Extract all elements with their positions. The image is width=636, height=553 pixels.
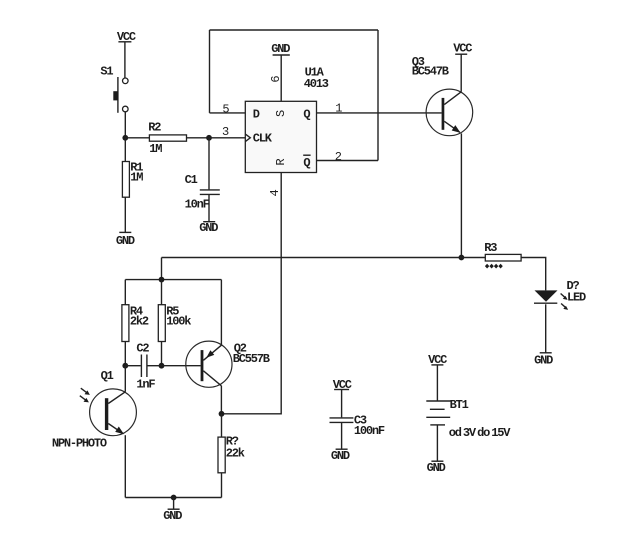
wire node F to Q2 base [162,365,201,367]
node E junction R4/C2/Q1 collector [122,363,128,369]
svg-text:1M: 1M [130,171,143,185]
resistor R2 [149,135,186,141]
svg-text:15V: 15V [491,426,511,440]
battery BT1 [426,401,450,425]
sensor supply rail [125,279,221,281]
svg-text:R3: R3 [484,241,497,255]
svg-text:do: do [477,426,490,440]
svg-text:GND: GND [163,509,182,523]
svg-text:4: 4 [268,190,282,197]
capacitor C2 [125,355,161,378]
wire R3 to LED [521,258,546,291]
bottom ground rail [125,497,221,499]
svg-text:BC547B: BC547B [412,65,449,79]
capacitor C1 [200,138,220,222]
svg-text:GND: GND [331,449,350,463]
svg-text:GND: GND [199,221,218,235]
svg-text:GND: GND [534,353,553,367]
svg-text:D: D [253,107,260,121]
resistor R1 [122,162,129,198]
svg-text:3V: 3V [463,426,477,440]
svg-text:R2: R2 [148,120,161,134]
node D junction rail/R5 [159,277,165,283]
svg-text:GND: GND [271,42,290,56]
node G junction Q2 collector/pin4 wire/R? [219,411,225,417]
svg-text:2: 2 [335,150,342,164]
node C junction Q3 emitter/R3/main wire [459,255,465,261]
main output wire to sensor rail [162,257,462,259]
node A junction S1/R1/R2 [122,135,128,141]
wire Q1 emitter to bottom rail [124,435,126,497]
svg-text:od: od [449,426,462,440]
wire node B to CLK pin [209,137,245,139]
resistor R5 [158,305,165,342]
LED D? [534,290,568,310]
svg-text:LED: LED [567,291,586,305]
ground symbol below R1 [116,232,135,248]
svg-text:Q1: Q1 [101,369,114,383]
transistor Q2 [186,341,232,387]
ground symbol below C1 [199,221,218,235]
svg-text:100k: 100k [166,315,191,329]
wire Q1 collector to node E [124,366,126,392]
wire node G to R? [221,414,223,437]
resistor R? [218,437,225,473]
wire R2 to node B [187,137,210,139]
wire rail to R5 [161,280,163,305]
clock input triangle [245,134,250,142]
resistor R3 [485,254,521,261]
wire ground to pin 6 [280,55,282,101]
wire Q output to Q3 base [317,112,442,114]
pin label Q-bar [303,155,310,170]
svg-text:GND: GND [427,461,446,475]
power flag VCC (C3) [333,378,352,392]
wire R1 to ground [124,197,126,232]
phototransistor Q1 [80,388,137,435]
wire main down to rail junction [161,258,163,280]
node H junction bottom rail/ground [171,495,177,501]
resistor R4 [122,305,129,342]
wire R5 to node F [161,342,163,366]
node B junction R2/CLK/C1 [206,135,212,141]
svg-text:GND: GND [116,234,135,248]
svg-text:100nF: 100nF [354,424,385,438]
wire R3 from node C [461,257,485,259]
svg-text:4013: 4013 [304,77,329,91]
ground symbol bottom rail [163,498,182,523]
wire VCC to battery [436,365,438,401]
wire rail to R4 [124,280,126,305]
svg-text:2k2: 2k2 [130,315,149,329]
op flip-flop U1A 4013 body [245,101,316,172]
svg-text:C2: C2 [136,342,149,356]
svg-text:1nF: 1nF [136,377,155,391]
node F junction R5/C2/Q2 base [159,363,165,369]
label BT1 value od 3V do 15V [449,426,512,440]
wire rail to Q2 emitter [220,280,222,346]
wire LED cathode to ground [545,304,547,353]
svg-text:3: 3 [222,125,229,139]
svg-text:1M: 1M [149,142,162,156]
wire S1 bottom contact to node A [124,112,126,138]
svg-text:Q: Q [303,108,310,122]
capacitor C3 [330,390,354,450]
wire pin 4 down to Q2 collector node [222,173,282,414]
svg-text:C1: C1 [185,173,198,187]
svg-text:10nF: 10nF [185,197,210,211]
svg-text:BC557B: BC557B [233,352,270,366]
svg-text:R: R [274,159,288,166]
wire VCC to S1 top contact [124,42,126,78]
wire Q3 emitter to output node [460,133,462,257]
switch S1 [113,77,128,113]
ground symbol below LED [534,353,553,368]
svg-text:VCC: VCC [453,42,472,56]
wire Q2 collector to node G [220,386,222,414]
wire battery to ground [436,425,438,461]
svg-text:22k: 22k [226,446,245,460]
svg-text:S1: S1 [100,64,113,78]
svg-text:CLK: CLK [253,132,273,146]
ground symbol above pin 6 [271,42,290,56]
wire D pin to feedback loop [210,112,246,114]
wire R? to bottom rail [221,473,223,498]
svg-text:Q: Q [303,156,310,170]
ground symbol below BT1 [427,461,446,475]
svg-text:NPN-PHOTO: NPN-PHOTO [52,437,107,451]
wire node A to R1 [124,138,126,162]
transistor Q3 [426,89,473,136]
power flag VCC (Q3 collector) [453,42,472,56]
wire Q-bar pin to loop [317,160,379,162]
feedback loop wire left vertical [209,30,211,113]
svg-text:5: 5 [222,103,229,117]
wire node A to R2 [125,137,149,139]
svg-text:BT1: BT1 [450,398,469,412]
wire VCC to Q3 collector [460,54,462,92]
svg-text:S: S [274,110,288,117]
power flag VCC (S1 branch) [117,30,136,44]
wire R4 to node E [124,342,126,366]
power flag VCC (BT1) [428,353,447,367]
feedback loop wire right vertical [377,30,379,161]
ground symbol below C3 [331,449,350,463]
feedback loop wire top horizontal [210,29,379,31]
